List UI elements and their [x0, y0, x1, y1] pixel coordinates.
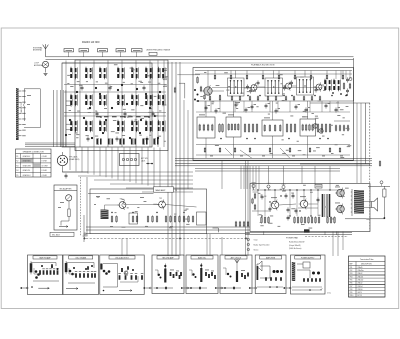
svg-text:R4: R4 — [16, 170, 18, 172]
svg-text:TR6: TR6 — [350, 283, 353, 285]
svg-text:ANTENNA: ANTENNA — [34, 64, 43, 67]
svg-text:1 DC: 1 DC — [327, 293, 332, 295]
svg-text:TR9: TR9 — [350, 292, 353, 294]
svg-text:TR3: TR3 — [350, 273, 353, 275]
svg-text:TR7: TR7 — [350, 286, 353, 288]
svg-text:ANT CIRCUIT: ANT CIRCUIT — [231, 256, 242, 259]
svg-text:RECORD AMP: RECORD AMP — [162, 256, 174, 259]
svg-text:TRANSISTOR: TRANSISTOR — [20, 102, 23, 114]
svg-text:TR4: TR4 — [350, 276, 353, 278]
svg-text:8 OHM: 8 OHM — [42, 170, 48, 172]
svg-text:T92: T92 — [159, 198, 162, 200]
svg-text:AMPLIFIER: AMPLIFIER — [266, 256, 276, 259]
svg-text:OSCILLATOR KIT: OSCILLATOR KIT — [115, 256, 129, 259]
svg-text:R2: R2 — [16, 161, 18, 163]
svg-text:LIMITER FREQUENCY RANGE: LIMITER FREQUENCY RANGE — [146, 49, 171, 52]
svg-text:R1: R1 — [16, 156, 18, 158]
svg-text:TR5: TR5 — [350, 279, 353, 281]
svg-text:2SB 56: 2SB 56 — [358, 289, 363, 291]
svg-text:4 OHM: 4 OHM — [42, 175, 48, 177]
svg-text:BIAS OSC: BIAS OSC — [198, 256, 207, 259]
svg-text:TR10: TR10 — [350, 295, 354, 297]
svg-text:RADIO HF 900: RADIO HF 900 — [82, 40, 100, 44]
svg-text:POWER SUPPLY: POWER SUPPLY — [301, 257, 315, 259]
svg-text:TR1: TR1 — [350, 267, 353, 269]
svg-text:4 OHM: 4 OHM — [42, 156, 48, 158]
svg-text:MT 23: MT 23 — [358, 295, 362, 297]
svg-text:8 OHM: 8 OHM — [42, 161, 48, 163]
svg-text:16 OHM: 16 OHM — [42, 165, 49, 167]
svg-text:MIC ADAPTER: MIC ADAPTER — [60, 187, 73, 190]
svg-text:TAPE P.B AMP: TAPE P.B AMP — [39, 256, 51, 259]
svg-text:SPK JACK: SPK JACK — [69, 156, 78, 159]
svg-text:R5: R5 — [16, 175, 18, 177]
svg-text:TR8: TR8 — [350, 289, 353, 291]
svg-text:ANTENNA: ANTENNA — [33, 49, 42, 52]
svg-text:R3: R3 — [16, 165, 18, 167]
svg-text:PLAYBACK EQ SECTION: PLAYBACK EQ SECTION — [251, 63, 275, 66]
svg-text:2SB 54: 2SB 54 — [358, 286, 363, 288]
svg-text:SPEAKER CONNECTOR: SPEAKER CONNECTOR — [23, 151, 45, 154]
svg-text:DESCRIPTION: DESCRIPTION — [361, 264, 372, 266]
svg-text:MAIN AMP: MAIN AMP — [156, 189, 166, 192]
svg-text:13: 13 — [175, 190, 177, 192]
svg-text:Transistors/Tube: Transistors/Tube — [360, 258, 374, 261]
svg-text:TR2: TR2 — [350, 270, 353, 272]
svg-text:REF: REF — [350, 264, 353, 266]
svg-text:MIC JACK: MIC JACK — [52, 234, 61, 237]
svg-text:POWER PAK: POWER PAK — [286, 236, 299, 239]
svg-text:OSC / ERASE: OSC / ERASE — [75, 256, 87, 259]
